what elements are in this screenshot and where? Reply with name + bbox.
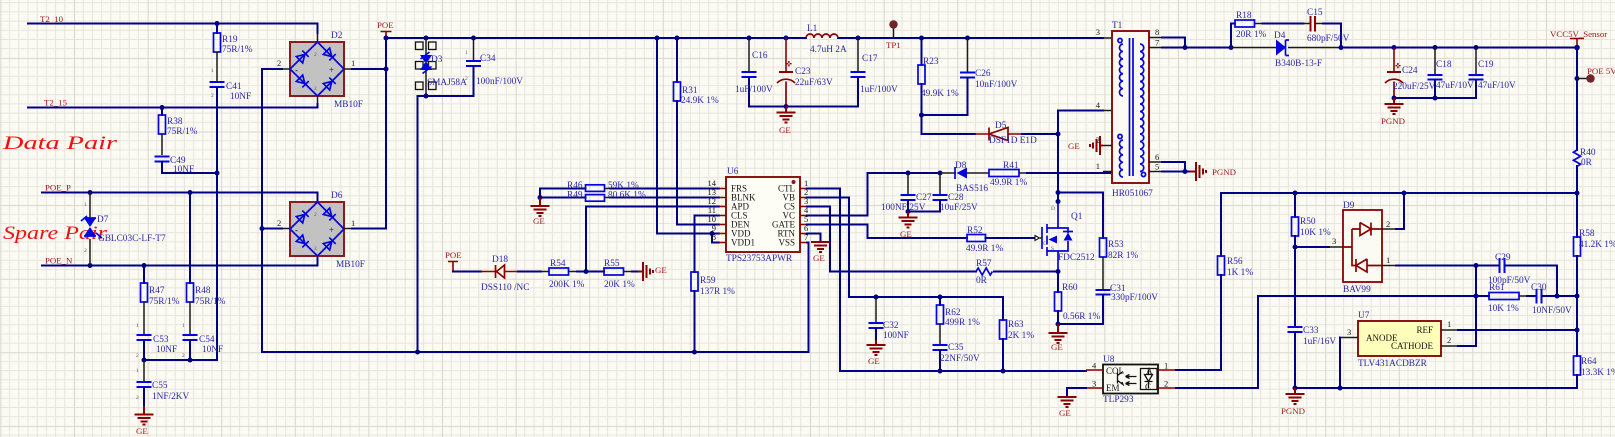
power port POE mid — [445, 250, 462, 272]
diode D3 TVS SMAJ58A — [416, 38, 437, 96]
svg-text:1: 1 — [182, 323, 185, 329]
regulator U7 TLV431 — [1358, 321, 1441, 356]
junction C29 C30 — [1555, 294, 1560, 299]
junction C18 — [1433, 45, 1438, 50]
svg-text:GE: GE — [1059, 408, 1071, 418]
svg-text:330pF/100V: 330pF/100V — [1111, 293, 1158, 303]
wire D9 pin2 — [1396, 193, 1404, 229]
junction rail352 R59 — [692, 350, 697, 355]
svg-text:1uF/100V: 1uF/100V — [735, 85, 773, 95]
svg-text:GE: GE — [533, 216, 545, 226]
svg-text:200K 1%: 200K 1% — [549, 280, 585, 290]
svg-text:POE_N: POE_N — [45, 256, 73, 266]
svg-text:4.7uH 2A: 4.7uH 2A — [810, 45, 847, 55]
svg-text:1: 1 — [136, 323, 139, 329]
svg-text:D: D — [1051, 206, 1055, 212]
svg-text:D4: D4 — [1274, 31, 1286, 41]
resistor R47 — [141, 266, 148, 335]
svg-text:SMAJ58A: SMAJ58A — [427, 78, 467, 88]
svg-text:C16: C16 — [752, 51, 768, 61]
resistor R61 — [1489, 293, 1535, 300]
svg-text:47uF/10V: 47uF/10V — [1478, 81, 1516, 91]
capacitor C23 polarized — [777, 38, 795, 107]
svg-text:41.2K 1%: 41.2K 1% — [1579, 240, 1615, 250]
junction D9 pin2 col — [1402, 191, 1407, 196]
svg-text:10NF: 10NF — [230, 92, 251, 102]
ground GE right of R55 — [638, 262, 653, 281]
junction C27 top — [906, 171, 911, 176]
ground GE below C55 — [135, 406, 154, 425]
svg-text:2: 2 — [277, 218, 281, 228]
diode D7 TVS — [81, 193, 102, 266]
wire node A vertical — [1475, 266, 1477, 347]
svg-text:R50: R50 — [1300, 217, 1316, 227]
junction snubber left — [1229, 45, 1234, 50]
svg-text:R64: R64 — [1581, 357, 1597, 367]
svg-text:GE: GE — [868, 356, 880, 366]
svg-text:C35: C35 — [948, 343, 964, 353]
capacitor C30 — [1536, 289, 1578, 304]
svg-text:80.6K 1%: 80.6K 1% — [608, 191, 646, 201]
junction C24 bottom — [1392, 96, 1397, 101]
svg-text:-: - — [295, 65, 298, 75]
svg-text:1: 1 — [351, 58, 355, 68]
junction D5 drain col — [1056, 132, 1061, 137]
resistor R63 — [1000, 297, 1007, 371]
capacitor C26 — [922, 38, 976, 115]
wire APD to R54 junction — [586, 207, 719, 272]
capacitor C32 — [869, 297, 884, 340]
svg-text:2: 2 — [1447, 335, 1451, 345]
power port VCC5V_Sensor — [1550, 29, 1607, 48]
wire CTL pin1 — [807, 189, 840, 372]
svg-text:100NF: 100NF — [883, 331, 909, 341]
svg-text:R55: R55 — [604, 259, 620, 269]
svg-text:PGND: PGND — [1212, 167, 1236, 177]
wire R50 to C33 — [1294, 247, 1296, 326]
junction R63 rail — [1001, 369, 1006, 374]
svg-text:C34: C34 — [480, 54, 496, 64]
capacitor C35 — [933, 344, 948, 371]
svg-text:C53: C53 — [153, 335, 169, 345]
junction snubber right — [1339, 45, 1344, 50]
wire T1 pin4 row — [1058, 110, 1103, 112]
svg-text:2: 2 — [314, 52, 317, 58]
svg-text:R31: R31 — [682, 86, 698, 96]
svg-text:R49: R49 — [567, 191, 583, 201]
svg-text:1: 1 — [351, 218, 355, 228]
svg-text:47uF/10V: 47uF/10V — [1436, 81, 1474, 91]
wire VDD1 hook — [712, 234, 719, 243]
svg-text:GE: GE — [1051, 342, 1063, 352]
junction drain snubber — [1056, 190, 1061, 195]
svg-text:R52: R52 — [967, 226, 983, 236]
svg-text:10K 1%: 10K 1% — [1488, 304, 1519, 314]
wire D6 pin2 — [262, 228, 290, 230]
svg-text:TPS23753APWR: TPS23753APWR — [726, 254, 793, 264]
svg-text:2: 2 — [314, 212, 317, 218]
resistor R41 — [989, 170, 1112, 177]
svg-text:POE: POE — [377, 20, 394, 30]
svg-text:8: 8 — [712, 232, 716, 242]
ground GE below R60 — [1049, 324, 1068, 343]
svg-text:20R 1%: 20R 1% — [1236, 30, 1266, 40]
svg-text:C54: C54 — [199, 335, 215, 345]
svg-text:D18: D18 — [492, 255, 508, 265]
resistor R18 — [1231, 20, 1304, 48]
ground GE below C32 — [867, 340, 886, 355]
svg-text:MB10F: MB10F — [336, 260, 365, 270]
svg-text:C26: C26 — [975, 69, 991, 79]
svg-text:49.9R 1%: 49.9R 1% — [966, 244, 1003, 254]
diode D4 B340B — [1231, 40, 1341, 56]
junction R50 top — [1293, 191, 1298, 196]
svg-text:10NF/50V: 10NF/50V — [1532, 306, 1572, 316]
wire POE rail — [386, 37, 1103, 39]
capacitor C54 — [183, 334, 198, 360]
svg-text:R59: R59 — [700, 276, 716, 286]
svg-text:1K 1%: 1K 1% — [1227, 268, 1253, 278]
svg-text:5: 5 — [1155, 162, 1159, 172]
capacitor C28 — [908, 173, 948, 212]
svg-text:22NF/50V: 22NF/50V — [940, 354, 980, 364]
wire CTL rail y371 — [840, 370, 1086, 372]
junction VB C32 — [874, 295, 879, 300]
svg-text:D2: D2 — [331, 31, 343, 41]
power port PGND at T1 pin5 — [1190, 162, 1206, 181]
wire snubber R53 top — [1058, 193, 1103, 239]
wire RTN pin6 — [807, 234, 821, 242]
capacitor C34 — [466, 38, 481, 96]
wire T2_10 rail — [28, 24, 318, 43]
svg-text:U7: U7 — [1358, 311, 1370, 321]
svg-text:A: A — [1146, 366, 1153, 376]
svg-text:2: 2 — [182, 353, 185, 359]
svg-text:7: 7 — [1155, 38, 1159, 48]
junction REF divider — [1575, 328, 1580, 333]
wire output rail — [1341, 47, 1577, 49]
svg-text:VSS: VSS — [778, 238, 795, 248]
svg-text:DSS110 /NC: DSS110 /NC — [481, 283, 529, 293]
svg-text:C19: C19 — [1478, 60, 1494, 70]
junction VDD VDD1 — [710, 231, 715, 236]
svg-text:C29: C29 — [1495, 253, 1511, 263]
svg-text:U6: U6 — [727, 167, 739, 177]
svg-text:1NF/2KV: 1NF/2KV — [152, 392, 189, 402]
capacitor C53 — [137, 334, 152, 360]
svg-text:1: 1 — [465, 50, 468, 56]
svg-text:2: 2 — [314, 86, 317, 92]
T1 pin stubs — [1103, 38, 1162, 172]
capacitor C19 — [1394, 48, 1484, 99]
transformer T1 — [1112, 31, 1149, 183]
junction C26 top — [965, 36, 970, 41]
junction R40 rail — [1575, 191, 1580, 196]
svg-text:COL: COL — [1106, 366, 1124, 376]
junction R46 R49 — [538, 195, 543, 200]
wire T1 pin5 — [1162, 171, 1190, 173]
junction POE port — [384, 36, 389, 41]
junction C35 rail — [938, 369, 943, 374]
svg-text:R48: R48 — [195, 286, 211, 296]
svg-text:C30: C30 — [1531, 283, 1547, 293]
wire U7 anode pin3 — [1340, 338, 1358, 389]
svg-text:TLP293: TLP293 — [1103, 395, 1134, 405]
svg-text:0.56R 1%: 0.56R 1% — [1063, 312, 1100, 322]
svg-text:+: + — [329, 65, 334, 75]
svg-text:L1: L1 — [807, 24, 818, 34]
svg-text:1uF/100V: 1uF/100V — [860, 85, 898, 95]
junction U7 anode rail — [1338, 386, 1343, 391]
resistor R38 — [159, 108, 166, 156]
svg-text:FDC2512: FDC2512 — [1058, 253, 1095, 263]
svg-text:R56: R56 — [1227, 257, 1243, 267]
wire D9 pin3 — [1295, 246, 1329, 248]
svg-text:D8: D8 — [955, 161, 967, 171]
junction C16 top — [747, 36, 752, 41]
wire U8 pin3 GE — [1067, 388, 1086, 397]
junction C18 bottom — [1433, 96, 1438, 101]
inductor L1 — [806, 34, 838, 38]
svg-text:1: 1 — [136, 368, 139, 374]
wire GATE pin5 — [807, 225, 967, 239]
U6 right pins — [800, 189, 807, 243]
wire POE_P rail — [42, 193, 318, 203]
svg-text:75R/1%: 75R/1% — [195, 297, 226, 307]
wire POE_N rail — [42, 256, 318, 266]
svg-text:POE: POE — [445, 250, 462, 260]
svg-text:22uF/63V: 22uF/63V — [795, 78, 833, 88]
svg-text:2: 2 — [277, 58, 281, 68]
capacitor C29 — [1476, 258, 1557, 296]
resistor R55 — [604, 268, 638, 275]
ground GE below C23 — [777, 107, 796, 123]
junction C23 top — [784, 36, 789, 41]
capacitor C15 — [1304, 16, 1342, 48]
resistor R48 — [187, 193, 194, 335]
svg-text:R47: R47 — [149, 286, 165, 296]
junction C27 C28 bottom — [906, 209, 911, 214]
svg-text:C18: C18 — [1436, 60, 1452, 70]
svg-text:1: 1 — [1164, 361, 1168, 371]
svg-text:2: 2 — [136, 395, 139, 401]
svg-text:CATHODE: CATHODE — [1391, 341, 1434, 351]
svg-text:GE: GE — [813, 253, 825, 263]
wire CLS to R59 — [695, 216, 720, 273]
junction POE D2 — [384, 67, 389, 72]
junction R31 col — [675, 36, 680, 41]
svg-text:R53: R53 — [1108, 240, 1124, 250]
svg-text:T1: T1 — [1112, 21, 1123, 31]
ground GE at T1 pin2 — [1090, 136, 1103, 155]
junction C19 — [1474, 45, 1479, 50]
svg-text:D7: D7 — [97, 215, 109, 225]
junction R23 C26 — [919, 113, 924, 118]
resistor R40 0R zigzag — [1574, 150, 1581, 166]
svg-text:BAV99: BAV99 — [1343, 285, 1371, 295]
svg-text:1: 1 — [84, 202, 87, 208]
svg-text:49.9K 1%: 49.9K 1% — [921, 89, 959, 99]
svg-text:C24: C24 — [1402, 66, 1418, 76]
node POE 5V — [1575, 74, 1595, 82]
junction D7 bottom — [88, 263, 93, 268]
junction drain pin — [1056, 199, 1061, 204]
wire C16-C23-C17 bottom rail — [749, 106, 858, 108]
junction C53 — [142, 358, 147, 363]
svg-text:75R/1%: 75R/1% — [167, 127, 198, 137]
svg-text:10K 1%: 10K 1% — [1300, 228, 1331, 238]
svg-text:R62: R62 — [945, 308, 961, 318]
svg-text:1: 1 — [1447, 319, 1451, 329]
svg-text:24.9K 1%: 24.9K 1% — [681, 96, 719, 106]
svg-text:T2_10: T2_10 — [40, 14, 64, 24]
svg-text:2: 2 — [1164, 379, 1168, 389]
wire VSS pin7 — [807, 243, 809, 353]
capacitor C24 polarized — [1385, 48, 1403, 99]
svg-text:C33: C33 — [1303, 326, 1319, 336]
wire D6 pin1 — [344, 228, 386, 230]
wire VB pin2 — [807, 198, 1003, 298]
wire POE vertical D2-D6 — [385, 38, 387, 229]
svg-text:GBLC03C-LF-T7: GBLC03C-LF-T7 — [98, 234, 166, 244]
resistor R49 — [540, 189, 719, 202]
svg-text:+: + — [329, 225, 334, 235]
svg-text:8: 8 — [1155, 27, 1159, 37]
svg-text:PGND: PGND — [1281, 406, 1305, 416]
svg-text:GE: GE — [1068, 141, 1080, 151]
svg-text:-: - — [295, 225, 298, 235]
svg-text:10NF: 10NF — [202, 345, 223, 355]
svg-text:10NF: 10NF — [173, 165, 194, 175]
resistor R60 — [1055, 272, 1062, 325]
svg-text:D5: D5 — [995, 121, 1007, 131]
resistor R46 — [540, 185, 719, 192]
svg-text:R23: R23 — [923, 57, 939, 67]
svg-text:3: 3 — [1332, 236, 1336, 246]
svg-text:0R: 0R — [1581, 158, 1593, 168]
junction R47 top — [142, 263, 147, 268]
resistor R62 — [937, 297, 944, 344]
svg-text:D6: D6 — [331, 191, 343, 201]
svg-text:49.9R 1%: 49.9R 1% — [990, 178, 1027, 188]
junction D6 pin2 — [260, 226, 265, 231]
junction pin7 pin8 — [1183, 45, 1188, 50]
svg-text:D9: D9 — [1343, 201, 1355, 211]
svg-text:2: 2 — [211, 93, 214, 99]
svg-text:82R 1%: 82R 1% — [1108, 251, 1138, 261]
wire drain column — [1057, 111, 1059, 204]
ground GE at U8 pin3 — [1058, 397, 1077, 407]
wire VCC sense rail y193 — [1221, 192, 1577, 194]
svg-text:220uF/25V: 220uF/25V — [1393, 82, 1436, 92]
resistor R57 0R zigzag — [976, 268, 1058, 275]
svg-text:2K 1%: 2K 1% — [1008, 331, 1034, 341]
svg-text:R46: R46 — [567, 181, 583, 191]
junction R58 bottom — [1575, 294, 1580, 299]
svg-text:REF: REF — [1416, 325, 1433, 335]
junction rail352 D3 — [415, 350, 420, 355]
svg-text:GE: GE — [779, 125, 791, 135]
wire compensation row y296 — [1258, 295, 1489, 297]
power port POE top — [377, 20, 394, 38]
svg-text:10uF/25V: 10uF/25V — [940, 203, 978, 213]
svg-text:1: 1 — [211, 68, 214, 74]
svg-text:13.3K 1%: 13.3K 1% — [1581, 368, 1615, 378]
capacitor C55 — [137, 360, 152, 406]
wire CS pin3 — [807, 207, 976, 272]
svg-text:VDD1: VDD1 — [731, 238, 755, 248]
svg-text:C17: C17 — [862, 54, 878, 64]
op-amp U6 TPS23753A body — [726, 177, 800, 252]
svg-text:3: 3 — [1347, 327, 1351, 337]
junction C23 bottom — [784, 104, 789, 109]
svg-text:DSF1D E1D: DSF1D E1D — [989, 136, 1037, 146]
resistor R31 — [674, 38, 720, 225]
svg-text:75R/1%: 75R/1% — [222, 45, 253, 55]
resistor R59 — [691, 272, 698, 352]
svg-text:2: 2 — [1386, 219, 1390, 229]
svg-text:U8: U8 — [1103, 355, 1115, 365]
U6 left pins — [719, 189, 726, 243]
junction APD R54 R55 — [584, 269, 589, 274]
diode D18 DSS110 — [453, 265, 518, 278]
svg-text:499R 1%: 499R 1% — [945, 318, 980, 328]
svg-text:R19: R19 — [222, 35, 238, 45]
svg-text:POE_P: POE_P — [45, 183, 71, 193]
svg-text:R63: R63 — [1008, 320, 1024, 330]
svg-text:R38: R38 — [167, 117, 183, 127]
svg-text:GE: GE — [655, 265, 667, 275]
wire VC aux row y173 — [868, 172, 941, 174]
svg-text:10nF/100V: 10nF/100V — [975, 80, 1018, 90]
svg-text:PGND: PGND — [1381, 116, 1405, 126]
resistor R23 — [918, 38, 925, 134]
svg-text:BAS516: BAS516 — [956, 184, 988, 194]
svg-text:137R 1%: 137R 1% — [700, 287, 735, 297]
svg-text:R61: R61 — [1489, 283, 1505, 293]
svg-text:POE 5V: POE 5V — [1587, 66, 1615, 76]
wire T1 pin6 jog — [1162, 162, 1185, 172]
svg-text:TLV431ACDBZR: TLV431ACDBZR — [1358, 359, 1428, 369]
wire caps common rail — [144, 359, 217, 361]
capacitor C41 — [210, 81, 225, 360]
resistor R50 — [1292, 193, 1299, 247]
svg-text:R54: R54 — [550, 259, 566, 269]
diode D9 BAV99 — [1343, 210, 1382, 282]
svg-text:10NF: 10NF — [156, 345, 177, 355]
ground GE RTN — [811, 242, 830, 252]
svg-text:MB10F: MB10F — [334, 100, 363, 110]
wire VC pin4 — [807, 173, 868, 216]
testpoint TP1 — [889, 20, 897, 38]
svg-text:HR051067: HR051067 — [1112, 189, 1153, 199]
wire U7 ref pin1 — [1441, 329, 1577, 331]
capacitor C49 — [155, 156, 218, 174]
svg-text:2: 2 — [84, 248, 87, 254]
capacitor C27 — [901, 173, 916, 212]
junction node A y296 — [1474, 294, 1479, 299]
bridge rectifier D2 — [290, 42, 344, 96]
svg-text:GE: GE — [136, 426, 148, 436]
power port PGND below C24 — [1385, 98, 1404, 114]
diode D8 BAS516 — [940, 167, 989, 179]
capacitor C18 — [1428, 48, 1443, 99]
svg-text:R40: R40 — [1580, 148, 1596, 158]
resistor R1 9 — [214, 24, 221, 82]
svg-text:3: 3 — [1092, 379, 1096, 389]
wire U7 cathode pin2 — [1441, 345, 1476, 347]
junction D7 top — [88, 190, 93, 195]
